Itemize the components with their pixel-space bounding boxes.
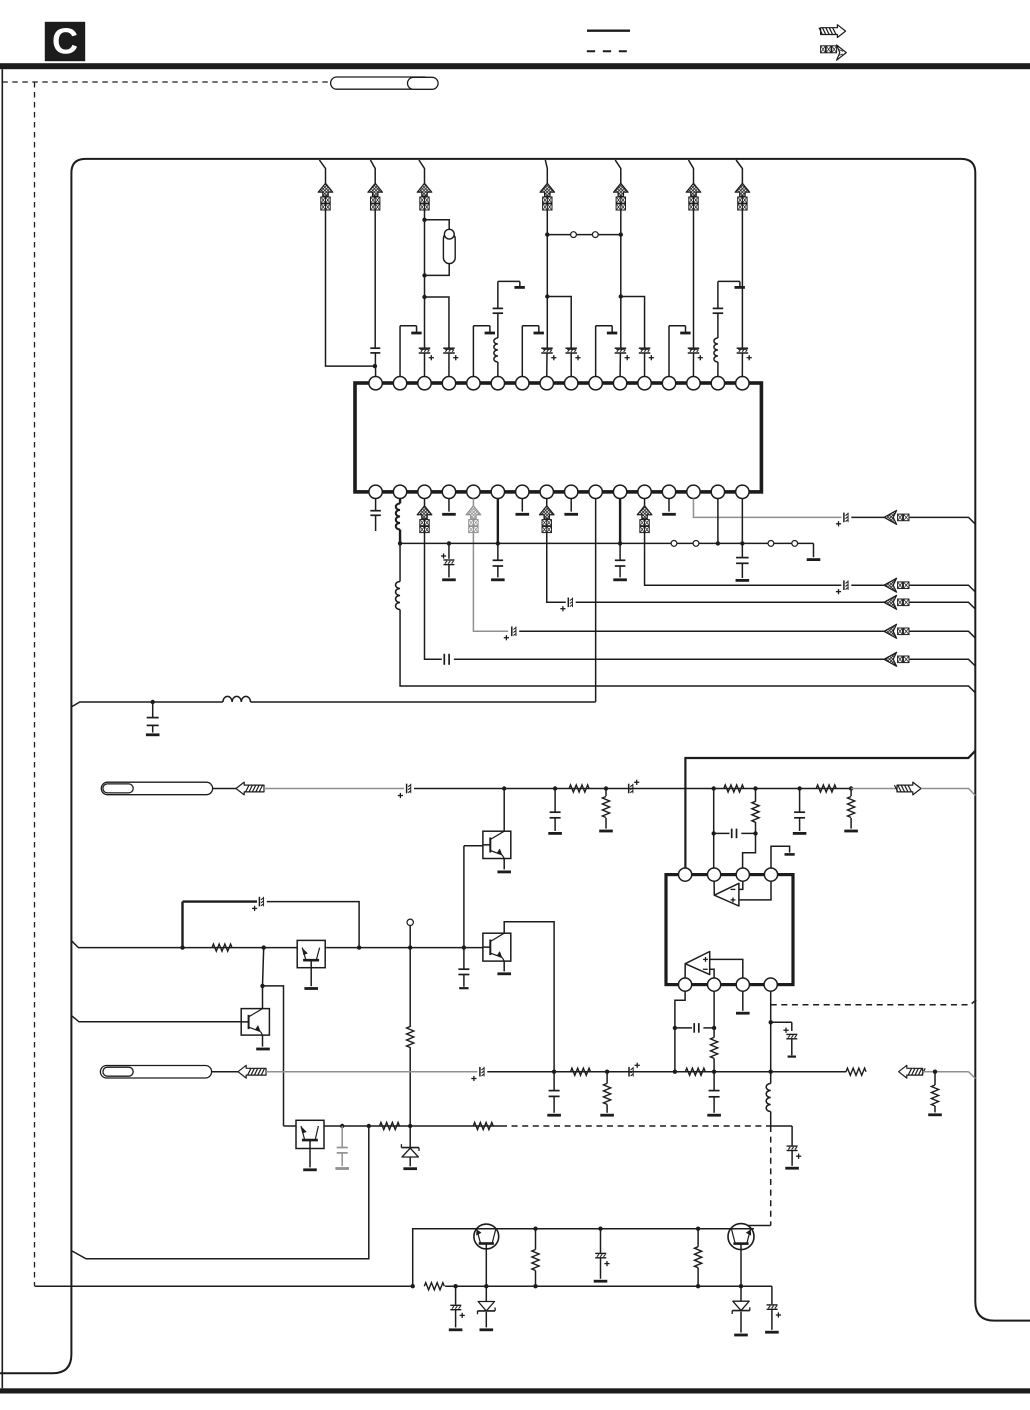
U2 top pin 2 — [708, 868, 721, 881]
node y788 u2 right — [753, 786, 757, 790]
wire line y702 — [71, 702, 595, 707]
node crystal top — [422, 218, 426, 222]
U1 bottom pin 14 — [687, 485, 700, 498]
wire PC5 entry — [284, 1125, 297, 1127]
node y1286 r18 bottom — [696, 1284, 700, 1288]
off-page connector left-arrow y659 — [884, 652, 909, 666]
node y702 cap — [151, 700, 155, 704]
PC2 emitter ground — [497, 961, 511, 974]
ground above pin 10 — [596, 326, 618, 377]
PC1 emitter ground — [497, 859, 511, 872]
node y1286 collector corner — [411, 1284, 415, 1288]
wire U2 pin4b down — [770, 991, 772, 1083]
transistor PC3 box — [241, 1009, 269, 1036]
node crystal bottom — [422, 273, 426, 277]
wire C5 to pin9 — [570, 353, 572, 377]
resistor R6 to ground — [844, 789, 858, 832]
wire A2 minus to pin2b — [710, 969, 714, 978]
U2 top pin 3 — [736, 868, 749, 881]
U1 top pin 1 — [369, 377, 382, 390]
wire gray y788 — [264, 788, 404, 790]
resistor R11 to ground — [600, 1072, 614, 1116]
wire y1286 end cap — [771, 1286, 773, 1304]
U1 top pin 13 — [662, 377, 675, 390]
wire y602 to edge — [910, 602, 976, 609]
wire to U2 pin2 — [713, 833, 715, 868]
bus jumper circle 3 — [768, 541, 774, 547]
resistor R8 vertical — [407, 1027, 414, 1048]
resistor R9 vertical — [711, 1037, 718, 1058]
wire supply feed 3 — [419, 160, 425, 183]
wire arrow7 down — [741, 210, 743, 348]
ground above pin 2 — [400, 326, 422, 377]
wire A2 plus to pin3b — [710, 959, 743, 978]
PC3 emitter ground — [256, 1035, 270, 1049]
wire collector to y947 — [263, 948, 264, 986]
node pin11 bus — [618, 541, 622, 545]
wire pin15 stub — [717, 499, 719, 544]
node y788 box1 collector — [502, 786, 506, 790]
bus jumper circle 2 — [693, 541, 699, 547]
U2 bottom pin 3 — [736, 978, 749, 991]
wire thick branch — [183, 902, 258, 948]
wire y788 to edge — [921, 789, 975, 796]
U1 bottom pin 12 — [638, 485, 651, 498]
node branch pin12 — [619, 294, 623, 298]
capacitor C16 below y702 — [146, 702, 160, 735]
U1 top pin 3 — [418, 377, 431, 390]
wire r8 down — [409, 1047, 411, 1125]
PC4 lead ground — [304, 968, 318, 989]
wire riser to y1258 — [71, 1126, 368, 1259]
U1 bottom pin 16 — [736, 485, 749, 498]
off-page arrow pin12 bottom — [637, 506, 652, 533]
capacitor C18 electrolytic series y585 — [843, 580, 845, 590]
wire pin4 branch — [425, 297, 449, 348]
node y947 pc1 base — [462, 945, 466, 949]
resistor R5 y788 — [816, 785, 836, 792]
node cap c24 left — [712, 831, 716, 835]
resistor R1 y788 — [569, 785, 589, 792]
wire pin7 stub — [521, 499, 523, 512]
wire pin13 stub — [668, 499, 670, 512]
U1 bottom pin 15 — [711, 485, 724, 498]
wire base line y947 — [71, 941, 483, 948]
off-page arrow pin3 bottom — [417, 506, 432, 533]
node y1071 pin4b line — [769, 1070, 773, 1074]
ground bar pin7 — [516, 513, 530, 516]
U1 top pin 5 — [467, 377, 480, 390]
capacitor C20 below pin16 — [736, 543, 750, 580]
wire pin2 output line — [400, 610, 975, 693]
wire arrow5 down — [620, 210, 622, 348]
inductor L4 below bus — [396, 543, 400, 609]
diode D3 zener to ground — [732, 1286, 750, 1335]
node feedback bottom — [753, 831, 757, 835]
wire y1286 mid — [445, 1285, 772, 1287]
wire A1 minus to pin3 — [739, 881, 743, 889]
wire c24 line — [714, 832, 730, 834]
capacitor C3 electrolytic pin4 — [443, 347, 455, 349]
node y1286 c37 — [453, 1284, 457, 1288]
wire y517 tail — [851, 516, 884, 518]
wire y788 main — [414, 788, 851, 790]
wire gray y788 right — [851, 788, 897, 790]
connector pill low — [100, 1066, 211, 1079]
U1 top pin 4 — [442, 377, 455, 390]
page left border — [1, 69, 3, 1388]
U1 bottom pin 8 — [540, 485, 553, 498]
off-page supply arrow 6 — [686, 183, 701, 210]
capacitor C29 below — [707, 1072, 721, 1116]
bus jumper circle 4 — [792, 541, 798, 547]
node branch pin9 — [545, 294, 549, 298]
wire y901 tail — [267, 902, 359, 948]
PC5 lead ground — [303, 1149, 317, 1170]
dashed link to edge — [771, 998, 978, 1005]
wire pin9 branch — [547, 297, 571, 349]
top separator bar — [0, 63, 1030, 69]
resistor R14 to ground — [928, 1072, 942, 1115]
jumper link J1 — [547, 232, 621, 238]
wire pill to arrow y1071 — [212, 1071, 238, 1073]
wire pin8 down — [547, 499, 566, 603]
op-amp A2 — [685, 952, 710, 975]
wire C8 to pin14 — [692, 353, 694, 377]
U1 top pin 6 — [491, 377, 504, 390]
wire y1125 right solid — [771, 1125, 792, 1127]
inductor L1 above pin 6 — [494, 313, 498, 376]
U1 bottom pin 3 — [418, 485, 431, 498]
capacitor C35 electrolytic to ground — [785, 1126, 801, 1168]
node jumper right — [619, 232, 623, 236]
transistor PC4 box pass-through — [297, 940, 325, 967]
U1 bottom pin 9 — [565, 485, 578, 498]
capacitor C34 gray to ground — [335, 1126, 349, 1169]
node pin2 bus — [398, 541, 402, 545]
dashed segment y1125 — [501, 1125, 771, 1127]
capacitor C26 electrolytic series y901 — [258, 897, 260, 907]
wire y585 to edge — [910, 585, 976, 592]
ground bar pin9 — [564, 513, 578, 516]
U2 bottom pin 1 — [679, 978, 692, 991]
wire to U2 pin3 — [743, 833, 756, 868]
wire pin16 down — [741, 499, 743, 544]
legend mini-connector symbol — [821, 45, 847, 60]
transistor PC2 box — [483, 933, 511, 961]
U1 bottom pin 13 — [662, 485, 675, 498]
capacitor C4 electrolytic pin8 — [541, 347, 553, 349]
capacitor C30 electrolytic — [783, 1022, 797, 1056]
capacitor C19 electrolytic series y517 — [843, 513, 845, 523]
node pin16 bus — [740, 541, 744, 545]
wire collector to PC5 — [263, 986, 284, 1126]
wire crystal branch — [425, 220, 450, 276]
U1 top pin 9 — [565, 377, 578, 390]
node elec branch — [769, 1020, 773, 1024]
wire pin9 stub — [570, 499, 572, 512]
transistor Q2 — [728, 1224, 754, 1250]
wire U2 pin2b chain — [713, 991, 715, 1037]
U1 top pin 10 — [589, 377, 602, 390]
resistor R12 y1071 — [685, 1068, 705, 1075]
node y947 thick branch — [180, 945, 184, 949]
node y1228 r17 — [533, 1227, 537, 1231]
capacitor C25 to ground — [793, 789, 807, 834]
capacitor C above pin 6 — [493, 307, 504, 309]
capacitor C1 on supply 2 — [370, 347, 380, 349]
node y788 c25 — [797, 786, 801, 790]
capacitor C33 electrolytic series y1071b — [628, 1067, 630, 1077]
node y1286 q2 base — [739, 1284, 743, 1288]
wire capline — [675, 1027, 692, 1029]
U1 bottom pin 1 — [369, 485, 382, 498]
resistor R4 feedback — [752, 789, 759, 834]
node y1286 d2 — [484, 1284, 488, 1288]
off-page arrow pin8 bottom — [539, 506, 554, 533]
IC U1 main body — [355, 383, 761, 492]
wire u2 pin2 branch — [713, 789, 715, 834]
signal arrow left y788 — [236, 782, 264, 795]
legend dashed-line sample — [587, 50, 627, 52]
capacitor C22 to ground — [548, 789, 562, 834]
off-page supply arrow 5 — [614, 183, 629, 210]
wire base PC1 riser — [463, 846, 465, 948]
capacitor C13 electrolytic series y631 — [511, 627, 513, 637]
capacitor C32 to ground — [547, 1072, 561, 1116]
test point terminal — [407, 919, 413, 948]
node capline left — [673, 1026, 677, 1030]
wire y602 — [576, 601, 884, 603]
node y788 r6 — [849, 786, 853, 790]
node pin1 junction — [373, 364, 377, 368]
wire supply feed 6 — [689, 160, 694, 183]
capacitor C28 series — [693, 1023, 695, 1033]
wire y1125 solid part — [324, 1125, 501, 1127]
node y1228 c36 — [598, 1227, 602, 1231]
wire elec branch — [771, 1021, 792, 1023]
U1 top pin 2 — [393, 377, 406, 390]
ground above pin 13 — [669, 326, 691, 377]
wire PC3 collector — [262, 986, 264, 1009]
wire pin12 branch — [621, 297, 645, 349]
wire C11 to edge — [454, 658, 884, 660]
op-amp A1 — [714, 883, 739, 906]
transistor Q1 — [474, 1224, 499, 1249]
wire A1 output to pin2 — [713, 881, 715, 895]
wire capline right — [703, 1027, 714, 1029]
ground above pin 7 — [522, 326, 544, 377]
node y1071 pin2b — [712, 1070, 716, 1074]
inductor L5 on y702 — [223, 696, 251, 702]
capacitor C27 below node — [458, 948, 469, 989]
wire pin6 thick — [497, 499, 499, 544]
wire supply feed 7 — [736, 160, 742, 183]
U1 bottom pin 7 — [516, 485, 529, 498]
U1 bottom pin 5 — [467, 485, 480, 498]
node y1071 r11 — [605, 1070, 609, 1074]
resistor R18 vertical — [695, 1229, 702, 1287]
wire C7 to pin12 — [644, 353, 646, 377]
wire supply feed 5 — [615, 160, 621, 183]
wire y1071 main — [487, 1071, 846, 1073]
wire y1228 mid — [543, 1228, 729, 1230]
U1 bottom pin 4 — [442, 485, 455, 498]
connector pill top — [331, 77, 439, 89]
wire gray y1071 right — [923, 1071, 969, 1073]
transistor PC1 box — [464, 831, 511, 858]
wire y517 to edge — [910, 517, 976, 524]
node y1228 r18 — [696, 1227, 700, 1231]
capacitor C12 electrolytic below bus — [441, 543, 456, 579]
resistor R15 y1125 — [380, 1122, 400, 1129]
node pin4 bus — [447, 541, 451, 545]
node y788 u2 left — [712, 786, 716, 790]
capacitor C7 electrolytic pin12 — [639, 347, 651, 349]
svg-text:C: C — [52, 21, 78, 62]
dashed boundary horizontal — [2, 81, 329, 83]
wire pin4 stub — [448, 499, 450, 512]
capacitor C5 electrolytic pin9 — [565, 347, 577, 349]
wire supply feed 4 — [545, 160, 547, 183]
wire Q1 base down — [485, 1244, 487, 1287]
off-page connector left-arrow y517 — [884, 510, 909, 524]
U1 top pin 12 — [638, 377, 651, 390]
capacitor C36 electrolytic to ground — [594, 1229, 610, 1282]
wire test point down — [409, 948, 411, 1027]
wire pin10 long vertical — [595, 499, 597, 702]
node y1125 gray cap — [340, 1124, 344, 1128]
node pin6 bus — [496, 541, 500, 545]
node y1071 pin1b branch — [673, 1070, 677, 1074]
wire supply feed 2 — [370, 160, 375, 183]
capacitor C23 electrolytic series y788b — [628, 784, 630, 794]
U1 top pin 7 — [516, 377, 529, 390]
wire collector line y1228 — [413, 1229, 730, 1287]
off-page supply arrow 3 — [417, 183, 432, 210]
wire y659 to edge — [910, 659, 976, 666]
off-page arrow pin5 bottom gray — [466, 506, 481, 533]
node jumper left — [545, 232, 549, 236]
wire pin3 to cap — [425, 499, 442, 660]
wire L6 to y1125 — [770, 1112, 772, 1127]
U2 bottom pin 4 — [764, 978, 777, 991]
section label C — [45, 22, 85, 61]
node PC3 collector split — [260, 984, 264, 988]
U1 top pin 11 — [613, 377, 626, 390]
capacitor C11 series — [443, 654, 445, 665]
wire arrow2 down — [374, 210, 376, 348]
diode D2 zener to ground — [478, 1286, 496, 1330]
node y947 pc3 collector — [262, 945, 266, 949]
wire C3 to pin4 — [448, 353, 450, 377]
dashed vertical to Q2 — [770, 1126, 772, 1226]
bus jumper circle 1 — [671, 541, 677, 547]
wire arrow1 to pin1 node — [326, 210, 375, 366]
capacitor C10 at pin1 bottom — [370, 499, 381, 532]
signal arrow left y1071 — [238, 1065, 266, 1078]
capacitor C17 below pin11 — [613, 543, 627, 579]
transistor PC5 box pass-through — [296, 1120, 324, 1148]
capacitor C14 below pin6 — [491, 543, 505, 579]
U1 top pin 8 — [540, 377, 553, 390]
U1 bottom pin 10 — [589, 485, 602, 498]
bus line y543 — [400, 542, 813, 544]
node pin15 bus — [716, 541, 720, 545]
resistor R16 y1125 — [473, 1122, 493, 1129]
wire bottom line y1286 — [35, 1285, 413, 1287]
capacitor C24 series — [731, 829, 733, 839]
wire pin11 thick — [619, 499, 621, 544]
wire C6 to pin11 — [619, 353, 621, 377]
wire r9 to line — [713, 1058, 715, 1071]
wire y631 — [519, 630, 884, 632]
wire PC2 collector route — [504, 922, 554, 1072]
U1 top pin 15 — [711, 377, 724, 390]
node y1071 r14 — [933, 1070, 937, 1074]
wire c24 right — [741, 832, 755, 834]
wire PC1 collector — [503, 789, 505, 832]
wire pin12 down — [645, 499, 842, 586]
off-page supply arrow 1 — [318, 183, 333, 210]
node capline right — [712, 1026, 716, 1030]
wire A1 plus to pin4 — [739, 881, 771, 900]
U2 bottom pin 2 — [708, 978, 721, 991]
node y947 test point — [408, 945, 412, 949]
wire supply feed 1 — [319, 160, 325, 183]
capacitor C21 electrolytic series y788 — [406, 784, 408, 794]
wire C4 to pin8 — [546, 353, 548, 377]
wire arrow3 down — [424, 210, 426, 348]
IC U2 body — [666, 875, 793, 985]
off-page supply arrow 4 — [540, 183, 555, 210]
wire C9 to pin16 — [741, 353, 743, 377]
off-page connector left-arrow y631 — [884, 624, 909, 638]
legend solid-line sample — [587, 30, 630, 32]
connector pill mid — [101, 782, 212, 795]
inductor L6 on pin4b line — [766, 1084, 770, 1112]
resonator X1 — [443, 229, 455, 263]
legend arrow symbol — [819, 25, 846, 38]
wire pill to arrow y788 — [213, 788, 236, 790]
node y1071 c32 — [552, 1070, 556, 1074]
inductor L3 at pin2 bottom — [396, 499, 400, 544]
capacitor C38 electrolytic to ground — [765, 1305, 781, 1332]
bus ground tail — [807, 543, 821, 559]
wire thick feed to U2 pin1 — [685, 751, 975, 875]
node y1125 zener — [408, 1124, 412, 1128]
wire C2 to pin3 — [424, 353, 426, 377]
bottom separator bar — [0, 1388, 1030, 1393]
resistor R3 y788 — [724, 785, 744, 792]
ground above pin 5 — [473, 326, 495, 377]
node y1125 riser — [367, 1124, 371, 1128]
resistor R17 vertical — [532, 1229, 539, 1287]
capacitor C15 electrolytic series y602 — [567, 598, 569, 608]
wire base line y1021 — [71, 1016, 241, 1022]
wire arrow4 down — [546, 210, 548, 348]
U1 top pin 16 — [736, 377, 749, 390]
resistor R19 y1286 — [424, 1283, 444, 1290]
U2 top pin 1 — [679, 868, 692, 881]
off-page connector left-arrow y585 — [884, 578, 909, 592]
ground above pin 6 — [498, 281, 525, 308]
resistor R2 to ground — [599, 789, 613, 832]
wire Q2 base down — [740, 1244, 742, 1287]
wire pin14 gray line y517 — [693, 499, 841, 518]
resistor R7 y947 — [212, 944, 232, 951]
wire arrow6 down — [693, 210, 695, 348]
